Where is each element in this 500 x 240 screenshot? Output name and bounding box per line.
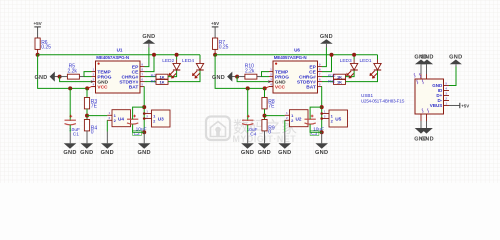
ground flag GND flag 1 [34, 72, 59, 82]
junction [58, 75, 62, 79]
junction [142, 105, 146, 109]
svg-text:GND: GND [138, 150, 151, 156]
svg-text:GND: GND [63, 150, 76, 156]
svg-text:1K: 1K [337, 80, 342, 85]
wire to R10 [237, 76, 245, 78]
connector U2 [285, 110, 308, 127]
power +5V PWR2 [211, 21, 220, 38]
svg-text:ME4057ASPG-N: ME4057ASPG-N [274, 55, 307, 60]
svg-text:0.25: 0.25 [41, 45, 51, 51]
LED LED3 [340, 55, 358, 79]
IC U6 ME4057ASPG-N [269, 48, 322, 93]
connector USB1 U254-051T-4BH83-F1S [361, 79, 444, 114]
svg-text:C1: C1 [73, 132, 79, 138]
capacitor C2 10uF [127, 115, 147, 137]
svg-text:+5V: +5V [461, 103, 469, 108]
USB shield pins top [414, 64, 426, 84]
junction [235, 75, 239, 79]
svg-text:R11: R11 [328, 79, 336, 84]
svg-text:GND: GND [420, 54, 433, 60]
wire C2 bottom [310, 124, 322, 132]
svg-text:GND: GND [421, 136, 434, 142]
capacitor C3 10uF [305, 115, 325, 137]
wire usb gnd [449, 67, 456, 86]
svg-text:GND: GND [34, 75, 47, 81]
resistor R7 [213, 38, 218, 49]
wire VCC to R3 [86, 88, 88, 97]
svg-text:GND: GND [258, 150, 271, 156]
svg-text:LED4: LED4 [182, 58, 194, 64]
resistor R5 [67, 74, 79, 79]
resistor R11 [334, 80, 346, 85]
svg-text:R1: R1 [151, 79, 157, 84]
wire BAT [321, 87, 323, 133]
junction [330, 53, 334, 57]
wire STDBY# [322, 81, 334, 83]
wire to U4 [87, 115, 107, 117]
ground U4 gnd [101, 143, 114, 156]
svg-text:GND: GND [449, 54, 462, 60]
wire TEMP tie [84, 72, 92, 77]
svg-text:U6: U6 [294, 48, 300, 53]
svg-text:0.25: 0.25 [219, 45, 229, 51]
svg-text:ME4057ASPG-N: ME4057ASPG-N [96, 55, 129, 60]
wire R12 to LED3 [346, 70, 355, 76]
svg-text:0: 0 [268, 129, 271, 135]
wire to U2 [265, 115, 285, 117]
wire VCC to pin [87, 87, 95, 89]
svg-text:+5V: +5V [33, 21, 42, 26]
wire BAT [143, 87, 145, 133]
wire GND pin [237, 77, 268, 82]
resistor R6 [35, 38, 40, 49]
power +5V VBUS [449, 103, 469, 109]
ground R4 gnd [80, 143, 93, 156]
junction [85, 86, 89, 90]
ground usb top gnd a [414, 54, 427, 64]
ground usb top gnd b [420, 54, 433, 64]
svg-text:1K: 1K [337, 74, 342, 79]
svg-text:GND: GND [101, 150, 114, 156]
svg-text:GND: GND [278, 150, 291, 156]
USB right pins [430, 82, 449, 109]
svg-text:U254-051T-4BH83-F1S: U254-051T-4BH83-F1S [361, 98, 404, 103]
junction [352, 53, 356, 57]
capacitor C1 10uF [65, 115, 81, 138]
ground usb right gnd [449, 54, 462, 64]
watermark logo [206, 117, 297, 145]
wire CE to +5V [322, 55, 332, 72]
junction [320, 105, 324, 109]
svg-text:GND: GND [80, 150, 93, 156]
wire U4 pin2 to gnd [284, 120, 286, 131]
wire EP to ground [145, 48, 149, 67]
resistor R4 [84, 120, 89, 131]
junction [246, 86, 250, 90]
junction [213, 53, 217, 57]
wire CE to +5V [145, 55, 155, 72]
svg-text:1K: 1K [159, 74, 164, 79]
wire BAT to gnd [143, 132, 145, 143]
capacitor C4 10uF [242, 115, 258, 138]
svg-text:VBUS: VBUS [430, 103, 443, 108]
wire C2 top [310, 107, 322, 119]
resistor R12 [334, 74, 346, 79]
wire EP to ground [322, 48, 326, 67]
resistor R3 [84, 98, 89, 109]
wire C2 bottom [133, 124, 145, 132]
wire U4 pin2 to gnd [106, 120, 108, 131]
wire to R5 [60, 76, 68, 78]
svg-text:7E: 7E [91, 104, 98, 110]
wire VCC to C4 [247, 88, 249, 121]
svg-text:BAT: BAT [306, 84, 316, 90]
svg-text:2.2k: 2.2k [67, 68, 77, 74]
svg-text:7E: 7E [268, 104, 275, 110]
wire R11 to LED1 [346, 70, 378, 81]
svg-text:R2: R2 [151, 73, 157, 78]
svg-text:U2: U2 [296, 116, 302, 121]
wire C2 top [133, 107, 145, 119]
wire PROG [84, 76, 92, 78]
resistor R10 [245, 74, 257, 79]
svg-text:BAT: BAT [129, 84, 139, 90]
svg-text:R12: R12 [328, 73, 336, 78]
ground BAT gnd [315, 143, 328, 156]
wire VCC drop [38, 55, 88, 89]
svg-text:LED1: LED1 [360, 58, 372, 64]
wire +5V rail [215, 54, 377, 56]
ground U4 gnd [278, 143, 291, 156]
junction [142, 130, 146, 134]
svg-text:2.2k: 2.2k [245, 68, 255, 74]
svg-text:U1: U1 [117, 48, 123, 53]
svg-text:+5V: +5V [211, 21, 220, 26]
svg-text:GND: GND [212, 75, 225, 81]
wire R3-R4 [264, 109, 266, 120]
wire VCC to C1 [69, 88, 71, 121]
svg-text:VCC: VCC [97, 84, 108, 90]
junction [85, 114, 89, 118]
connector U3 [143, 109, 170, 127]
junction [263, 86, 267, 90]
svg-text:VCC: VCC [275, 84, 286, 90]
wire R3-R4 [86, 109, 88, 120]
junction [68, 86, 72, 90]
ground BAT gnd [138, 143, 151, 156]
junction [152, 53, 156, 57]
junction [36, 53, 40, 57]
resistor R9 [262, 120, 267, 131]
wire STDBY# [145, 81, 157, 83]
svg-text:0: 0 [91, 129, 94, 135]
wire CHRG# [322, 76, 334, 78]
ground top gnd 1 [142, 34, 155, 47]
wire PROG [262, 76, 270, 78]
ground top gnd 2 [320, 34, 333, 47]
svg-text:1K: 1K [159, 80, 164, 85]
resistor R8 [262, 98, 267, 109]
svg-text:GND: GND [241, 150, 254, 156]
wire TEMP tie [262, 72, 270, 77]
ground R4 gnd [258, 143, 271, 156]
svg-text:GND: GND [315, 150, 328, 156]
ground C1 gnd [241, 143, 254, 156]
wire +5V rail [38, 54, 200, 56]
ground usb bottom b [420, 128, 434, 142]
resistor R1 [156, 80, 168, 85]
svg-text:C4: C4 [250, 132, 256, 138]
wire VCC drop [215, 55, 265, 89]
junction [320, 130, 324, 134]
LED LED4 [182, 55, 204, 79]
ground C1 gnd [63, 143, 76, 156]
wire R2 to LED2 [168, 70, 177, 76]
IC U1 ME4057ASPG-N [92, 48, 145, 93]
junction [175, 53, 179, 57]
wire VCC to pin [265, 87, 273, 89]
power +5V PWR1 [33, 21, 42, 38]
LED LED2 [162, 55, 180, 79]
svg-text:U3: U3 [158, 117, 164, 122]
svg-text:U4: U4 [118, 116, 124, 121]
wire CHRG# [145, 76, 157, 78]
USB shield pins bottom [421, 108, 429, 128]
wire BAT to gnd [321, 132, 323, 143]
connector U5 [320, 109, 347, 127]
resistor R2 [156, 74, 168, 79]
junction [263, 114, 267, 118]
ground flag GND flag 2 [212, 72, 237, 82]
wire GND pin [60, 77, 91, 82]
connector U4 [107, 110, 130, 127]
ground usb bottom a [414, 128, 427, 142]
svg-text:U5: U5 [335, 117, 341, 122]
wire VCC to R8 [264, 88, 266, 97]
wire R1 to LED4 [168, 70, 200, 81]
LED LED1 [360, 55, 382, 79]
